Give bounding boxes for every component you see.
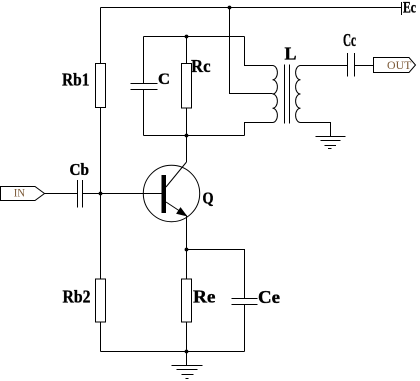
wire: tank top to primary top [245,37,273,66]
wire: tank top horizontal [144,36,245,38]
resistor Rb1 [96,64,106,108]
transformer L core [285,65,290,124]
svg-text:IN: IN [14,186,26,200]
power terminal Ec bar [401,2,403,15]
wire: Re bottom lead [186,322,188,352]
svg-text:Rb2: Rb2 [63,286,91,306]
svg-text:Q: Q [203,189,214,208]
ground symbol at emitter rail [172,352,203,379]
wire: secondary top to Cc [301,65,348,67]
transistor Q emitter arrow [176,207,187,216]
wire: Rb1 bottom to Rb2 top through base node [100,108,102,280]
port IN flag [1,187,45,201]
wire: base wire from IN port to transistor [45,193,78,195]
wire: secondary bottom to ground [301,123,331,137]
wire: capacitor C bottom lead [143,90,145,136]
wire: primary bottom to tank bottom [245,123,273,136]
junction dot: ground rail node [185,350,189,354]
wire: left column from rail to Rb1 [100,8,102,64]
svg-text:Rc: Rc [191,56,211,76]
svg-text:C: C [158,71,170,88]
wire: Ce bottom lead [244,305,246,352]
wire: tank bottom horizontal [144,135,245,137]
svg-text:Cb: Cb [70,160,90,179]
resistor Rc [182,64,192,109]
junction dot: base bias node [99,192,103,196]
capacitor C plates [131,84,158,90]
svg-text:Re: Re [193,286,216,306]
inductor L secondary winding [296,66,301,123]
junction dot: emitter node [185,248,189,252]
junction dot: Ec rail tap [228,6,232,10]
wire: top supply rail Ec [101,7,402,9]
ground symbol at transformer secondary [316,137,346,149]
wire: capacitor C top lead [143,37,145,84]
capacitor Cc plates [348,53,355,77]
transistor Q collector stroke [166,162,187,187]
inductor L primary winding [273,66,278,123]
junction dot: tank top node [185,35,189,39]
resistor Rb2 [96,279,106,322]
wire: Ec rail drop to transformer centre tap [230,8,273,94]
junction dot: collector node [185,134,189,138]
wire: Rc top lead [186,37,188,64]
transistor Q body circle [143,165,199,221]
svg-text:Cc: Cc [343,30,356,50]
wire: Cb to base [83,193,162,195]
svg-text:OUT: OUT [387,58,412,72]
svg-text:Ec: Ec [403,0,416,17]
wire: collector lead from tank to transistor [186,136,188,163]
wire: emitter lead down to node [186,216,188,280]
wire: bottom ground rail [101,351,245,353]
wire: Cc to OUT port [355,65,375,67]
transistor Q emitter stroke [166,202,187,216]
wire: Rc bottom lead [186,108,188,136]
svg-text:Rb1: Rb1 [62,70,90,90]
capacitor Cb plates [78,180,83,208]
svg-text:L: L [285,43,297,63]
wire: Rb2 bottom to ground rail [100,322,102,352]
transistor Q base bar [162,175,167,213]
port OUT flag [374,58,416,73]
svg-text:Ce: Ce [258,287,280,307]
resistor Re [182,279,192,322]
wire: emitter node to Ce branch [187,250,245,299]
capacitor Ce plates [232,299,258,305]
